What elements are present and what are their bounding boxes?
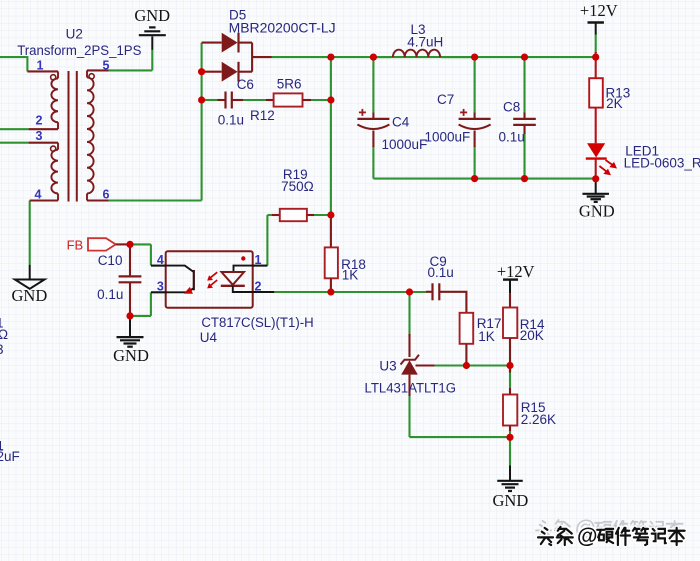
svg-text:3: 3 — [157, 279, 164, 293]
svg-text:U2: U2 — [66, 27, 83, 42]
svg-text:20K: 20K — [520, 328, 544, 343]
svg-text:2: 2 — [36, 114, 43, 128]
svg-text:1K: 1K — [478, 329, 495, 344]
svg-text:GND: GND — [134, 6, 170, 25]
svg-text:C7: C7 — [437, 92, 454, 107]
svg-text:C10: C10 — [98, 253, 123, 268]
svg-text:1: 1 — [255, 253, 262, 267]
svg-text:CT817C(SL)(T1)-H: CT817C(SL)(T1)-H — [201, 315, 313, 330]
svg-text:750Ω: 750Ω — [281, 179, 314, 194]
svg-text:2K: 2K — [606, 96, 623, 111]
svg-text:4.7uH: 4.7uH — [407, 34, 443, 49]
svg-text:5R6: 5R6 — [277, 77, 302, 92]
svg-text:2uF: 2uF — [0, 449, 20, 464]
svg-text:0.1u: 0.1u — [499, 129, 525, 144]
svg-text:1000uF: 1000uF — [382, 137, 428, 152]
svg-text:GND: GND — [113, 346, 149, 365]
svg-text:3: 3 — [36, 129, 43, 143]
svg-text:LTL431ATLT1G: LTL431ATLT1G — [365, 380, 457, 395]
svg-text:GND: GND — [12, 286, 48, 305]
svg-text:R12: R12 — [250, 108, 275, 123]
svg-text:1K: 1K — [342, 268, 359, 283]
svg-text:5: 5 — [103, 59, 110, 73]
svg-text:Transform_2PS_1PS: Transform_2PS_1PS — [17, 43, 141, 58]
svg-text:0.1u: 0.1u — [428, 265, 454, 280]
svg-text:+12V: +12V — [580, 1, 618, 20]
svg-text:@: @ — [577, 525, 597, 548]
svg-text:C8: C8 — [503, 99, 520, 114]
svg-text:1000uF: 1000uF — [425, 129, 471, 144]
svg-text:Ω: Ω — [0, 327, 8, 342]
svg-text:+12V: +12V — [497, 262, 535, 281]
svg-text:U4: U4 — [200, 330, 218, 345]
svg-text:2: 2 — [255, 279, 262, 293]
svg-text:C6: C6 — [237, 77, 254, 92]
svg-text:U3: U3 — [379, 358, 396, 373]
svg-text:1: 1 — [37, 59, 44, 73]
svg-text:MBR20200CT-LJ: MBR20200CT-LJ — [229, 21, 336, 36]
svg-text:0.1u: 0.1u — [97, 287, 123, 302]
svg-text:4: 4 — [35, 188, 42, 202]
svg-text:4: 4 — [157, 253, 164, 267]
svg-text:0.1u: 0.1u — [218, 112, 244, 127]
svg-text:6: 6 — [103, 188, 110, 202]
svg-text:3: 3 — [0, 342, 4, 357]
svg-text:GND: GND — [493, 491, 529, 510]
svg-text:LED-0603_RD: LED-0603_RD — [624, 156, 700, 171]
svg-text:GND: GND — [579, 202, 615, 221]
svg-text:C4: C4 — [392, 115, 410, 130]
svg-text:FB: FB — [67, 238, 84, 253]
svg-text:2.26K: 2.26K — [521, 412, 556, 427]
